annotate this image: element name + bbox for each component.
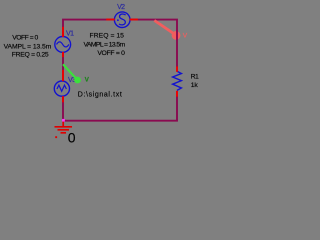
svg-text:VOFF = 0: VOFF = 0 [12,34,38,41]
pin: R1 top [176,66,178,71]
voltage marker (red) at node A [154,20,187,40]
svg-text:FREQ = 15: FREQ = 15 [90,33,125,40]
svg-text:1k: 1k [191,82,199,89]
svg-text:D:\signal.txt: D:\signal.txt [78,91,123,98]
pin: R1 bottom [176,91,178,97]
voltage marker (green) at V3 node [63,64,90,83]
resistor R1 [173,71,182,90]
pin: V1 top [62,27,64,37]
svg-text:R1: R1 [191,74,199,81]
pin: V2 left [106,19,115,21]
pin: V1 bottom [62,52,64,57]
pin: V3 bottom [62,96,64,102]
voltage source V1 (VSIN) [55,37,71,53]
svg-text:0: 0 [68,129,76,145]
pin: V3 top [62,70,64,81]
svg-text:V: V [183,32,188,39]
node: ground junction [62,119,65,122]
wire: top net V1 top to right corner [63,20,177,67]
pin: V2 right [130,19,138,21]
svg-text:V2: V2 [117,4,125,11]
wire: left vertical V1 to V3 to ground junction [62,36,64,120]
svg-text:V1: V1 [66,30,74,37]
svg-text:VAMPL = 13.5m: VAMPL = 13.5m [83,41,125,48]
voltage source V2 (VSIN horizontal) [114,12,130,28]
wire: right vertical below R1 [176,96,178,121]
svg-text:VOFF = 0: VOFF = 0 [97,50,125,57]
ground 0 symbol [55,121,73,138]
svg-text:VAMPL = 13.5m: VAMPL = 13.5m [4,43,52,50]
svg-text:V: V [85,77,90,84]
svg-text:FREQ = 0.25: FREQ = 0.25 [12,51,49,58]
wire: bottom net ground to R1 [63,120,178,122]
voltage source V3 (file signal source) [54,81,69,96]
wire: segment over marker dot [176,31,178,41]
